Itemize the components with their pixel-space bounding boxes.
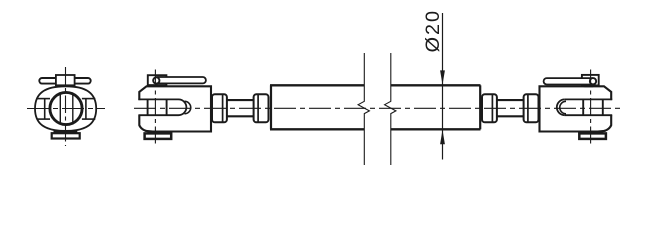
slot bottom line (left fork) [138, 114, 178, 116]
arrow up at tube bottom [440, 130, 445, 145]
slot top line (left fork) [138, 98, 178, 100]
slot round end D arc (left fork) [179, 99, 187, 115]
slot wall right (end view) [72, 93, 74, 124]
arrow down at tube top [440, 70, 445, 85]
tube top edge left segment [270, 84, 364, 86]
bottom flange (side view) [145, 133, 172, 139]
wing toggle bar (stadium) [39, 78, 90, 84]
slot round end D arc (right fork) [557, 99, 565, 115]
ear chord top-right [82, 98, 95, 100]
slot wall left (end view) [59, 93, 61, 124]
break line 1 [358, 53, 369, 165]
vertical centerline of end view [65, 67, 67, 146]
main horizontal centerline [134, 107, 622, 109]
bottom wedge [145, 130, 168, 135]
outer body profile [35, 86, 96, 131]
fillet wedge left of block (right) [583, 86, 594, 88]
pin axis centerline (right) [590, 70, 592, 144]
ear chord bottom-right [82, 118, 95, 120]
horizontal centerline of end view [27, 108, 105, 110]
ear edge right [85, 99, 87, 120]
ear edge left [44, 99, 46, 120]
slot bottom line (right fork) [565, 114, 613, 116]
tube right end edge [479, 85, 481, 129]
slot top line (right fork) [565, 98, 613, 100]
pin head block (right) [582, 75, 599, 86]
ear chord top-left [37, 98, 50, 100]
pin grip bar (left) [156, 77, 206, 83]
fork body outline [139, 86, 211, 131]
pin hole line left (left fork) [147, 99, 149, 115]
slot end small arc (right fork) [560, 101, 566, 114]
pin boss block top [56, 75, 75, 85]
pin hole line right (right fork) [602, 99, 604, 115]
svg-text:Ø20: Ø20 [422, 9, 444, 52]
threaded stud top line [227, 99, 254, 101]
fillet wedge right of block (left) [157, 85, 168, 87]
lock nut 1 [212, 94, 227, 122]
tube bottom edge left segment [270, 128, 364, 130]
pin head block (left) [148, 75, 167, 85]
tube top edge right segment [391, 84, 481, 86]
threaded stud bottom line [227, 115, 254, 117]
pin axis centerline (left) [154, 70, 156, 144]
inner ring (eye) [50, 92, 82, 124]
pin head circle (right) [590, 78, 596, 84]
break line 2 [385, 53, 396, 165]
dimension line [442, 13, 444, 160]
pin hole line left (right fork) [582, 99, 584, 115]
slot end small arc (left fork) [185, 101, 191, 114]
lock nut 2 [254, 94, 269, 122]
nut 2 face line [257, 95, 259, 123]
tube bottom edge right segment [391, 128, 481, 130]
bottom boss bar (filled) [54, 130, 78, 133]
tube left end edge [270, 85, 272, 129]
pin grip bar (right) [544, 78, 593, 84]
pin head circle (left) [153, 77, 159, 83]
pin hole line right (left fork) [166, 99, 168, 115]
ear chord bottom-left [37, 118, 50, 120]
nut 1 face line [222, 95, 224, 123]
bottom flange (end view) [52, 133, 80, 138]
